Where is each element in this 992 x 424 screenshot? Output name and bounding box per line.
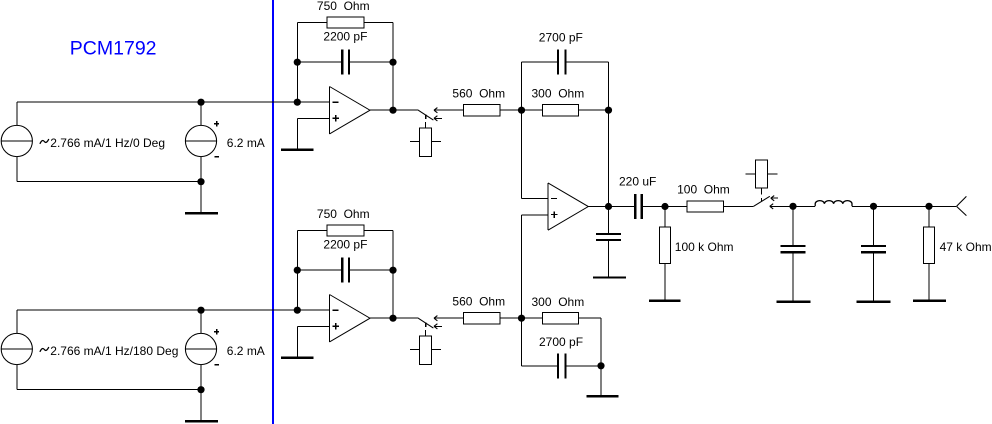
ground at Cf1 <box>776 301 810 303</box>
node op-amp U1a output <box>389 107 396 114</box>
switch SWa arrows <box>434 109 464 111</box>
capacitor Cf2 to ground <box>873 206 875 245</box>
feedback right column a <box>392 22 394 110</box>
DC current source IDa stems <box>200 102 202 125</box>
ground of diff network <box>600 366 602 395</box>
node 100k junction <box>661 203 668 210</box>
op-amp U1b I/V converter <box>330 295 371 342</box>
diff-amp inverting input column <box>521 62 523 199</box>
feedback right column b <box>392 230 394 318</box>
feedback resistor R750b 750 Ohm <box>297 229 327 231</box>
feedback capacitor C2200b 2200 pF <box>297 269 341 271</box>
node diff input top <box>518 107 525 114</box>
PCM1792 chip boundary line <box>272 0 274 424</box>
node U2 output <box>605 203 612 210</box>
switch SWb blade <box>418 318 433 328</box>
wire filter node to inductor <box>793 205 815 207</box>
switch SWout blade <box>754 196 770 206</box>
node diff feedback <box>605 107 612 114</box>
AC current source ISb stems <box>16 310 18 333</box>
wire + input to ground a <box>297 117 329 119</box>
AC symbol of ISa <box>40 139 49 144</box>
svg-text:100 k Ohm: 100 k Ohm <box>675 240 734 254</box>
switch SWb control box <box>425 330 427 336</box>
svg-text:2.766 mA/1 Hz/180 Deg: 2.766 mA/1 Hz/180 Deg <box>50 344 178 358</box>
svg-text:2.766 mA/1 Hz/0 Deg: 2.766 mA/1 Hz/0 Deg <box>50 136 165 150</box>
node filter mid <box>870 203 877 210</box>
svg-text:750 Ohm: 750 Ohm <box>317 0 370 13</box>
svg-text:220 uF: 220 uF <box>619 175 656 189</box>
ground at Cf2 <box>857 301 891 303</box>
wire to output node <box>874 205 930 207</box>
output terminal <box>929 205 957 207</box>
node ground junction channel b <box>197 386 204 393</box>
svg-text:2200 pF: 2200 pF <box>323 237 367 251</box>
wire + input to ground b <box>297 325 329 327</box>
op-amp U1a output wire <box>370 109 418 111</box>
AC current source ISa stems <box>16 102 18 125</box>
resistor R300a 300 Ohm feedback <box>522 109 543 111</box>
svg-text:2700 pF: 2700 pF <box>539 31 583 45</box>
node inverting input a <box>294 99 301 106</box>
svg-text:300 Ohm: 300 Ohm <box>532 87 585 101</box>
diff-amp non-inverting input column <box>522 214 549 216</box>
node rail junction channel a <box>197 99 204 106</box>
ground of source section b <box>200 390 202 421</box>
resistor R560a 560 Ohm <box>464 105 501 116</box>
switch SWout control box <box>761 188 763 194</box>
node feedback right cap a <box>389 59 396 66</box>
svg-text:47 k Ohm: 47 k Ohm <box>940 240 992 254</box>
op-amp U1a I/V converter <box>330 87 371 134</box>
svg-text:560 Ohm: 560 Ohm <box>452 295 505 309</box>
wire top rail channel a <box>17 101 330 103</box>
capacitor C out to ground <box>608 207 610 234</box>
svg-text:6.2 mA: 6.2 mA <box>227 136 265 150</box>
node output <box>925 203 932 210</box>
resistor R47k 47 k Ohm <box>928 206 930 227</box>
AC symbol of ISb <box>40 347 49 352</box>
resistor R560b 560 Ohm <box>464 313 501 324</box>
node feedback left cap b <box>294 267 301 274</box>
svg-text:750 Ohm: 750 Ohm <box>317 207 370 221</box>
ground at op-amp U1a <box>281 149 314 151</box>
DC current source IDa 6.2 mA <box>185 125 216 156</box>
node rail junction channel b <box>197 307 204 314</box>
svg-text:2200 pF: 2200 pF <box>323 29 367 43</box>
switch SWb arrows <box>434 317 464 319</box>
DC current source IDb 6.2 mA <box>185 333 216 364</box>
diff-amp feedback right column <box>608 62 610 206</box>
switch SWa control box <box>425 122 427 128</box>
svg-text:300 Ohm: 300 Ohm <box>532 295 585 309</box>
AC current source ISb <box>1 333 32 364</box>
capacitor C2700a 2700 pF feedback <box>522 61 558 63</box>
switch SWout arrows <box>771 197 778 199</box>
node inverting input b <box>294 307 301 314</box>
feedback left column b <box>296 230 298 310</box>
svg-text:560 Ohm: 560 Ohm <box>452 87 505 101</box>
wire R300b right down <box>600 318 602 366</box>
op-amp U1b output wire <box>370 317 418 319</box>
capacitor C220 220 uF <box>634 194 637 219</box>
capacitor Cf1 to ground <box>792 206 794 245</box>
node filter input <box>789 203 796 210</box>
switch SWa blade <box>418 110 433 120</box>
inductor L1 <box>815 201 852 207</box>
feedback left column a <box>296 22 298 102</box>
feedback capacitor C2200a 2200 pF <box>297 61 341 63</box>
node op-amp U1b output <box>389 315 396 322</box>
ground at R100k <box>649 299 681 301</box>
ground at output capacitor <box>593 276 626 278</box>
svg-text:2700 pF: 2700 pF <box>539 335 583 349</box>
ground at op-amp U1b <box>281 357 314 359</box>
op-amp U2 output wire <box>588 206 634 208</box>
node C2700b right <box>597 362 604 369</box>
node feedback left cap a <box>294 59 301 66</box>
node diff + input bottom <box>518 315 525 322</box>
svg-text:100 Ohm: 100 Ohm <box>677 183 730 197</box>
AC current source ISa <box>1 125 32 156</box>
wire bottom rail channel b <box>17 389 201 391</box>
wire bottom rail channel a <box>17 181 201 183</box>
resistor R100k 100 k Ohm <box>664 207 666 228</box>
op-amp U2 difference amplifier <box>548 183 588 230</box>
resistor R100 100 Ohm <box>665 206 687 208</box>
svg-text:6.2 mA: 6.2 mA <box>227 344 265 358</box>
wire top rail channel b <box>17 309 330 311</box>
capacitor C2700b 2700 pF <box>521 318 523 366</box>
resistor R300b 300 Ohm to ground network <box>522 317 543 319</box>
feedback resistor R750a 750 Ohm <box>297 21 327 23</box>
ground at R47k <box>913 299 946 301</box>
ground of source section a <box>200 182 202 213</box>
node feedback right cap b <box>389 267 396 274</box>
wire inductor to node <box>852 205 874 207</box>
DC current source IDb stems <box>200 310 202 333</box>
node ground junction channel a <box>197 178 204 185</box>
svg-text:PCM1792: PCM1792 <box>70 38 157 60</box>
